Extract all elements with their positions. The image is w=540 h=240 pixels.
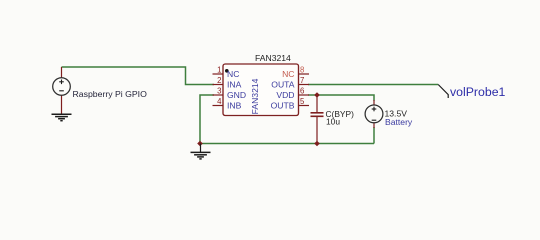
svg-text:GND: GND bbox=[227, 90, 246, 100]
pin 2 INA bbox=[213, 76, 242, 90]
ground GND2 (bottom rail) bbox=[191, 144, 211, 159]
probe marker volProbe1 bbox=[438, 85, 448, 99]
svg-text:INB: INB bbox=[227, 101, 242, 111]
label Battery bbox=[385, 117, 413, 127]
battery V2 bbox=[365, 100, 383, 128]
wire W1: source V1 top to INA pin 2 bbox=[62, 67, 215, 85]
label: Raspberry Pi GPIO bbox=[73, 89, 148, 99]
svg-text:Battery: Battery bbox=[385, 117, 413, 127]
svg-text:2: 2 bbox=[217, 76, 221, 85]
value label 13.5V bbox=[385, 109, 408, 119]
svg-text:volProbe1: volProbe1 bbox=[450, 85, 506, 99]
ground GND1 (below source V1) bbox=[52, 114, 72, 120]
wire W2: GND pin 3 to ground rail bbox=[200, 95, 214, 144]
svg-text:7: 7 bbox=[300, 76, 304, 85]
svg-text:10u: 10u bbox=[326, 117, 340, 127]
voltage source V1 bbox=[53, 67, 71, 114]
pin 1 NC bbox=[213, 66, 240, 80]
svg-text:NC: NC bbox=[227, 69, 239, 79]
wire W4: OUTA pin 7 to probe bbox=[308, 84, 438, 86]
pin 3 GND bbox=[213, 87, 247, 101]
junction node at capacitor bottom / rail bbox=[314, 141, 320, 147]
pin 8 NC bbox=[282, 66, 309, 80]
svg-text:OUTB: OUTB bbox=[271, 101, 295, 111]
svg-text:8: 8 bbox=[300, 66, 304, 75]
value label C(BYP) 10u bbox=[326, 109, 355, 127]
svg-text:4: 4 bbox=[217, 97, 222, 106]
pin 6 VDD bbox=[276, 87, 309, 101]
svg-text:INA: INA bbox=[227, 80, 242, 90]
junction node at ground rail left bbox=[197, 141, 203, 147]
wire W5: VDD pin 6 to battery top bbox=[308, 95, 374, 101]
svg-text:3: 3 bbox=[217, 87, 221, 96]
svg-text:FAN3214: FAN3214 bbox=[250, 78, 260, 114]
pin 7 OUTA bbox=[271, 76, 309, 90]
svg-text:VDD: VDD bbox=[276, 90, 294, 100]
svg-text:Raspberry Pi GPIO: Raspberry Pi GPIO bbox=[73, 89, 148, 99]
pin 1 orientation dot bbox=[225, 69, 229, 73]
svg-text:OUTA: OUTA bbox=[271, 80, 295, 90]
IC part name FAN3214 (rotated) bbox=[250, 78, 260, 114]
op-amp/driver IC U1 FAN3214 body bbox=[223, 64, 299, 116]
svg-text:6: 6 bbox=[300, 87, 304, 96]
svg-text:NC: NC bbox=[282, 69, 294, 79]
junction node at VDD wire / capacitor top bbox=[314, 92, 320, 98]
net name volProbe1 bbox=[450, 85, 506, 99]
svg-text:1: 1 bbox=[217, 66, 221, 75]
capacitor C(BYP) bbox=[311, 95, 324, 144]
IC value label FAN3214 (top) bbox=[255, 53, 291, 63]
svg-text:FAN3214: FAN3214 bbox=[255, 53, 291, 63]
wire W3: bottom ground rail bbox=[200, 143, 374, 145]
pin 5 OUTB bbox=[271, 97, 309, 111]
wire W6: battery bottom to ground rail bbox=[373, 127, 375, 144]
pin 4 INB bbox=[213, 97, 242, 111]
svg-text:5: 5 bbox=[300, 97, 305, 106]
